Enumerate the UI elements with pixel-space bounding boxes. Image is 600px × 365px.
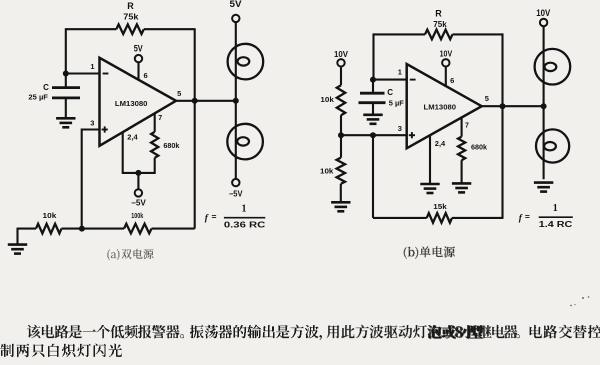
resistor 10k upper (divider) (337, 85, 345, 115)
svg-text:2,4: 2,4 (127, 132, 138, 141)
caption (a) dual supply 双电源 (107, 249, 153, 261)
node: divider midpoint (338, 132, 344, 138)
wire: circuit a left vertical from top rail to inverting node (65, 28, 67, 73)
minus sign at pin 1 (103, 73, 109, 75)
svg-text:5 µF: 5 µF (389, 98, 405, 107)
wire: circuit a feedback top rail (66, 28, 117, 30)
svg-text:2,4: 2,4 (435, 139, 446, 148)
resistor 15k (circuit b) (427, 213, 452, 223)
svg-text:75k: 75k (123, 13, 139, 22)
lamp DS4 filament (544, 142, 556, 150)
svg-text:7: 7 (465, 122, 469, 129)
op-amp U2 LM13080 (circuit b) (407, 64, 482, 148)
svg-text:R: R (127, 1, 134, 11)
wire: pin 2,4 to ground (circuit b) (429, 135, 431, 183)
svg-text:680k: 680k (471, 142, 488, 151)
wire: bottom rail (circuit a) (18, 228, 37, 230)
svg-text:10V: 10V (334, 50, 349, 59)
wire: output pin 5 to lamp column (176, 100, 236, 102)
svg-text:C: C (43, 83, 49, 92)
terminal 5V (pin 6) (135, 55, 142, 62)
wire: divider mid to pin 3 (circuit b) (341, 134, 407, 136)
node: lamp junction (circuit a) (233, 98, 239, 104)
wire: 5V terminal to pin 6 (137, 62, 139, 80)
svg-text:0.36 RC: 0.36 RC (224, 220, 265, 230)
wire: divider middle (340, 115, 342, 135)
terminal 10V (lamp column) (540, 19, 547, 26)
capacitor C plates (52, 86, 80, 89)
plus sign at pin 3 (U2) (409, 134, 415, 136)
wire: pin 3 to left (82, 128, 100, 130)
formula b fraction bar (539, 216, 573, 218)
wire: bottom rail (circuit b) (373, 217, 427, 219)
caption smudge overprint (428, 325, 483, 339)
svg-text:5V: 5V (230, 0, 242, 9)
caption text line 1 part 3 (327, 325, 520, 339)
caption text line 1 part 2 (190, 325, 322, 341)
capacitor C 5uF lead (circuit b) (372, 80, 374, 93)
speck marks (scan noise) (582, 297, 584, 299)
svg-text:f: f (205, 213, 209, 223)
terminal 10V (left divider) (337, 59, 344, 66)
svg-text:10k: 10k (320, 95, 334, 104)
wire: junction to -5V terminal (137, 173, 139, 189)
wire: 680k to ground (circuit b) (461, 160, 463, 183)
svg-text:5V: 5V (134, 43, 143, 53)
svg-text:=: = (212, 212, 217, 222)
formula a fraction bar (224, 217, 265, 219)
wire: to op-amp pin 1 (circuit b) (373, 79, 407, 81)
ground (divider, circuit b) (331, 202, 350, 211)
svg-text:f: f (519, 213, 523, 223)
svg-text:1: 1 (398, 67, 402, 76)
svg-text:3: 3 (90, 118, 94, 127)
svg-text:100k: 100k (131, 211, 144, 220)
lamp DS1 filament (238, 57, 250, 65)
wire: lamp column vertical (circuit a) (235, 22, 237, 179)
svg-text:7: 7 (158, 115, 162, 122)
wire: to op-amp pin 1 (66, 72, 100, 74)
wire: pin3 junction down to bottom rail (circuit b) (372, 135, 374, 218)
node: -5V junction (circuit a) (135, 170, 141, 176)
svg-text:5: 5 (485, 94, 489, 103)
wire: bottom rail left end to ground (16, 228, 18, 245)
node: circuit b inverting input junction (370, 77, 376, 83)
ground (below C, circuit a) (56, 118, 75, 127)
terminal 10V (pin 6) (442, 59, 449, 66)
caption (b) single supply 单电源 (404, 246, 455, 259)
node: output/feedback junction (circuit b) (500, 103, 506, 109)
svg-text:75k: 75k (433, 20, 447, 29)
capacitor C plates (circuit b) (360, 92, 385, 95)
node: circuit a inverting input junction (63, 71, 69, 77)
lamp DS1 bulb (circuit a top) (228, 44, 264, 80)
ground (680k, circuit b) (452, 183, 471, 192)
caption text line 1 part 4 (530, 325, 600, 339)
lamp DS2 filament (237, 137, 249, 145)
wire: circuit b feedback top rail (374, 33, 426, 35)
wire: circuit b feedback left vertical (372, 33, 374, 79)
wire: lamp column vertical (circuit b) (543, 26, 545, 179)
terminal -5V (circuit a op-amp) (135, 189, 142, 196)
wire: capacitor to ground (circuit b) (372, 103, 374, 115)
svg-text:R: R (435, 9, 442, 19)
svg-text:=: = (525, 212, 530, 222)
wire: 680k bottom to -5V node (123, 158, 155, 173)
svg-text:25 µF: 25 µF (28, 93, 48, 102)
terminal 5V (lamp column) (232, 15, 239, 22)
resistor 10k lower (divider) (337, 158, 345, 184)
wire: pin 7 lead (U2) (461, 118, 463, 137)
wire: output pin 5 to lamp column (circuit b) (482, 105, 544, 107)
lamp DS3 filament (545, 63, 557, 71)
wire: pin 3 node down to bottom rail (81, 129, 83, 229)
op-amp U1 LM13080 (circuit a) (100, 58, 177, 146)
wire: output feedback right vertical (194, 28, 196, 228)
plus sign at pin 3 (102, 129, 108, 131)
svg-text:−5V: −5V (229, 190, 243, 199)
node: output/feedback junction (circuit a) (192, 98, 198, 104)
resistor 680k (circuit a) (151, 132, 158, 158)
resistor 10k (circuit a) (36, 224, 62, 234)
wire: pin 2,4 down (122, 132, 124, 174)
lamp DS2 bulb (circuit a bottom) (227, 124, 263, 160)
caption text line 2 (1, 343, 123, 357)
svg-text:6: 6 (450, 76, 454, 85)
svg-text:LM13080: LM13080 (115, 99, 148, 108)
minus sign at pin 1 (U2) (410, 79, 416, 81)
svg-text:C: C (387, 88, 393, 97)
svg-text:1: 1 (90, 62, 94, 71)
svg-text:LM13080: LM13080 (424, 102, 457, 111)
svg-text:6: 6 (144, 71, 148, 80)
svg-text:15k: 15k (433, 202, 447, 211)
svg-text:680k: 680k (163, 141, 180, 150)
terminal -5V (lamp column) (232, 179, 239, 186)
svg-text:5: 5 (177, 89, 181, 98)
svg-text:−5V: −5V (131, 198, 146, 207)
wire: output feedback right vertical (circuit b) (501, 33, 503, 219)
lamp DS3 bulb (circuit b top) (535, 49, 571, 85)
svg-text:10V: 10V (440, 50, 453, 59)
wire: divider mid to lower resistor (340, 135, 342, 158)
ground (lamp column, circuit b) (534, 183, 553, 192)
svg-text:1.4 RC: 1.4 RC (539, 219, 573, 229)
wire: lower resistor to ground (340, 184, 342, 202)
ground (bottom left, circuit a) (8, 245, 27, 254)
resistor 100k (circuit a) (124, 224, 152, 234)
node: pin3/bottom rail junction (79, 226, 85, 232)
wire: capacitor to ground (65, 98, 67, 118)
wire: 10V terminal to pin 6 (U2) (445, 67, 447, 87)
resistor R 75k (circuit b feedback) (425, 30, 453, 40)
svg-text:3: 3 (398, 124, 402, 133)
resistor R 75k (circuit a feedback) (116, 24, 144, 34)
wire: 10V to divider (340, 67, 342, 86)
node: lamp junction (circuit b) (541, 103, 547, 109)
svg-text:1: 1 (553, 203, 558, 214)
caption text line 1 part 1 (27, 325, 184, 339)
svg-text:10V: 10V (536, 8, 550, 18)
lamp DS4 bulb (circuit b bottom) (536, 129, 569, 162)
svg-text:10k: 10k (320, 167, 334, 176)
svg-text:1: 1 (242, 204, 247, 215)
capacitor C 25uF lead (65, 74, 67, 87)
ground (pin 2,4, circuit b) (420, 184, 439, 193)
node: pin 3 feedback junction (circuit b) (370, 132, 376, 138)
svg-text:10k: 10k (43, 211, 58, 220)
wire: pin 7 lead (154, 113, 156, 131)
ground (below C, circuit b) (363, 115, 382, 124)
resistor 680k (circuit b) (458, 137, 465, 161)
